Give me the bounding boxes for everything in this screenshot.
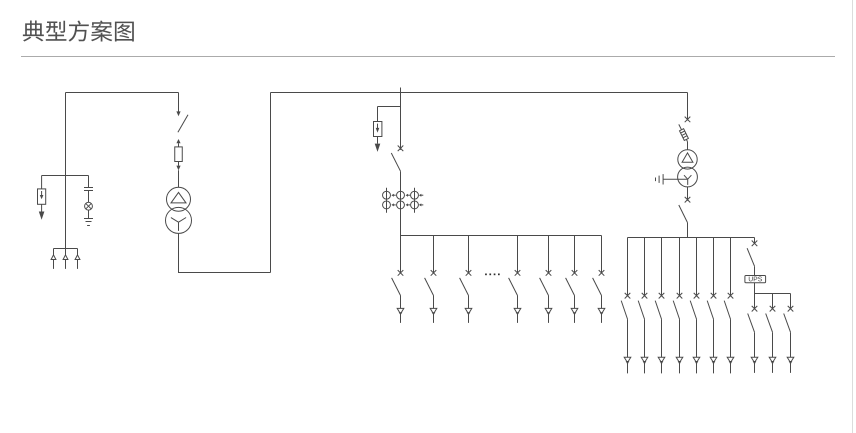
incoming cable arrow 3 <box>77 249 79 256</box>
LV feeder 7 (breaker X + blade + outgoing arrow) <box>724 238 734 374</box>
ground (lamp branch) <box>84 218 93 220</box>
LV feeder 4 (breaker X + blade + outgoing arrow) <box>673 238 683 374</box>
fuse FU1 body <box>175 147 183 162</box>
fuse FU1 lower contact arrow <box>178 162 180 166</box>
MV feeder 1 (breaker X + isolator blade + outgoing arrow) <box>392 236 404 323</box>
bus MV distribution <box>401 235 602 237</box>
wire left riser <box>65 93 67 249</box>
wire blade to UPS <box>754 266 756 275</box>
wire FU1 to transformer T1 <box>178 170 180 187</box>
wire UPS output <box>754 283 756 294</box>
MV feeder 7 (breaker X + isolator blade + outgoing arrow) <box>593 236 605 323</box>
wire QF1 to bus <box>400 171 402 235</box>
UPS branch blade <box>747 248 754 266</box>
neutral grounding of T2 <box>663 178 688 180</box>
disconnector QS1 blade <box>178 115 188 133</box>
ellipsis more feeders <box>485 274 487 276</box>
wire T2 to breaker QF3 <box>687 187 689 201</box>
CT column line right <box>414 188 416 213</box>
LV feeder 2 (breaker X + blade + outgoing arrow) <box>638 238 648 374</box>
UPS sub-feeder 1 (breaker X + blade + outgoing arrow) <box>748 294 758 373</box>
wire bottom run to riser <box>178 272 271 274</box>
wire arrester branch bar <box>42 175 89 177</box>
MV feeder 3 (breaker X + isolator blade + outgoing arrow) <box>460 236 472 323</box>
capacitor C1 plates <box>84 187 93 189</box>
title text 典型方案图 <box>23 20 134 41</box>
wire drop to disconnector QS1 <box>178 93 180 112</box>
wire top-left horizontal <box>66 92 179 94</box>
wire drop to fused switch QF2 <box>687 93 689 121</box>
MV feeder 2 (breaker X + isolator blade + outgoing arrow) <box>425 236 437 323</box>
wire QF2 to transformer T2 <box>687 142 689 150</box>
capacitor C1 lead <box>88 176 90 188</box>
discharge lamp <box>85 202 93 210</box>
surge arrester F2 body <box>374 122 382 137</box>
wire mid riser up <box>270 93 272 273</box>
transformer T2 primary winding (delta) <box>678 150 697 169</box>
wire QF3 to LV bus <box>687 223 689 238</box>
title underline <box>21 56 835 58</box>
LV feeder 3 (breaker X + blade + outgoing arrow) <box>655 238 665 374</box>
circuit breaker QF1 blade <box>391 153 400 171</box>
fused switch QF2 contact <box>685 117 691 123</box>
wire T1 secondary down <box>178 233 180 272</box>
MV feeder 5 (breaker X + isolator blade + outgoing arrow) <box>540 236 552 323</box>
UPS sub-feeder 3 (breaker X + blade + outgoing arrow) <box>784 294 794 373</box>
MV feeder 4 (breaker X + isolator blade + outgoing arrow) <box>509 236 521 323</box>
breaker QF3 contact <box>685 197 691 203</box>
transformer T2 secondary winding (wye) <box>678 167 698 187</box>
circuit breaker QF1 contact <box>398 146 404 152</box>
incoming cable arrow 1 <box>53 249 55 256</box>
disconnector QS1 fixed contact arrow <box>176 111 180 116</box>
UPS sub-feeder 2 (breaker X + blade + outgoing arrow) <box>766 294 776 373</box>
wire arrester F2 branch <box>378 106 401 108</box>
surge arrester F1 lead <box>41 176 43 189</box>
wire lamp to ground <box>88 210 90 218</box>
surge arrester F1 body <box>38 189 46 204</box>
page right border <box>852 0 854 433</box>
MV feeder 6 (breaker X + isolator blade + outgoing arrow) <box>566 236 578 323</box>
ground arrow below F1 <box>41 204 43 211</box>
fuse FU1 upper contact arrow <box>176 139 180 143</box>
bus UPS output <box>755 293 791 295</box>
breaker QF3 blade <box>679 205 688 223</box>
LV feeder 6 (breaker X + blade + outgoing arrow) <box>707 238 717 374</box>
current transformers CT group (2x3) <box>383 191 391 199</box>
fused switch QF2 blade with fuse barrel <box>679 124 688 141</box>
UPS box <box>745 276 766 283</box>
incoming cable arrow 2 <box>65 249 67 256</box>
wire MV top horizontal <box>271 92 688 94</box>
bus LV distribution <box>628 237 755 239</box>
CT column line left <box>386 188 388 213</box>
LV feeder 1 (breaker X + blade + outgoing arrow) <box>621 238 631 374</box>
ground arrow below F2 <box>377 137 379 144</box>
UPS branch breaker contact <box>754 238 756 244</box>
transformer T1 primary winding (delta) <box>167 187 191 211</box>
LV feeder 5 (breaker X + blade + outgoing arrow) <box>690 238 700 374</box>
wire drop to breaker QF1 <box>400 88 402 150</box>
transformer T1 secondary winding (wye) <box>166 207 192 233</box>
wire capacitor to lamp <box>88 191 90 203</box>
incoming feeder bar <box>54 248 78 250</box>
